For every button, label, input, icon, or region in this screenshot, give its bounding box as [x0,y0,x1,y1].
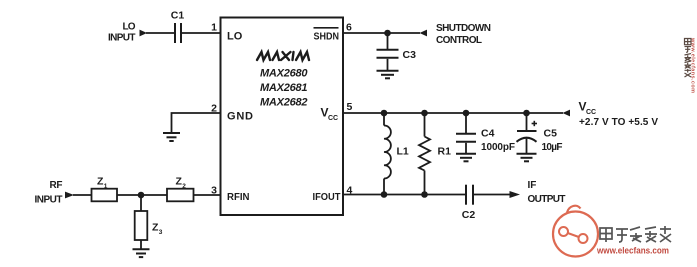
svg-text:1: 1 [211,22,217,34]
resistor R1 [424,113,426,137]
svg-text:www.elecfans.com: www.elecfans.com [690,37,696,93]
capacitor C3 [387,33,389,49]
wire Z2 to pin 3 [194,194,221,196]
watermark logo elecfans bottom right [553,206,598,257]
watermark vertical strip top right [685,39,692,78]
svg-text:IFOUT: IFOUT [313,191,342,203]
capacitor C4 [465,113,467,133]
resistor Z2 [167,189,194,202]
wire pin 5 Vcc rail [343,112,563,114]
svg-text:C1: C1 [171,10,185,22]
junction node C4 top [463,110,470,117]
IF output arrow [510,191,521,198]
C5 plus sign [532,123,537,125]
capacitor C2 [465,185,467,205]
resistor Z3 [135,211,148,240]
svg-text:MAX2682: MAX2682 [260,97,308,109]
wire Z3 to ground [140,240,142,249]
svg-text:LO: LO [123,22,136,33]
svg-text:6: 6 [346,22,352,34]
svg-text:CC: CC [586,109,596,116]
ground C4 [456,153,476,155]
svg-text:CONTROL: CONTROL [436,35,482,46]
svg-text:3: 3 [159,229,163,236]
wire node to Z3 [140,195,142,211]
capacitor C5 polarized [526,113,528,130]
junction node R1 top [421,110,428,117]
wire LO input to C1 [146,32,174,34]
LO input arrow [140,30,148,37]
junction node L1 top [381,110,388,117]
wire pin 6 SHDN to shutdown control [343,32,420,34]
svg-text:LO: LO [227,31,243,43]
wire C1 to pin 1 [182,32,221,34]
inductor L1 [383,113,385,126]
svg-text:C3: C3 [403,49,417,61]
svg-text:R1: R1 [438,146,452,158]
svg-text:2: 2 [211,103,217,115]
svg-text:C5: C5 [544,127,558,139]
svg-text:RFIN: RFIN [227,191,250,203]
svg-text:SHUTDOWN: SHUTDOWN [436,23,491,34]
wire Z1 to Z2 [117,194,167,196]
svg-text:L1: L1 [397,146,409,158]
junction node C3/pin6 [384,30,391,37]
IC U1 MAX2680/MAX2681/MAX2682 body [221,18,344,216]
RF input arrow [65,192,74,199]
ground GND pin [163,132,180,134]
svg-text:IF: IF [528,180,537,191]
svg-text:MAX2681: MAX2681 [260,82,308,94]
shutdown control arrow [420,30,428,37]
wire pin 4 IFOUT to C2 [343,194,465,196]
SHDN overline [314,27,339,29]
IC logo MAXIM [257,52,309,60]
ground C3 [377,70,399,72]
svg-text:SHDN: SHDN [314,31,340,43]
Vcc arrow [563,110,571,117]
svg-text:GND: GND [227,111,253,123]
capacitor C1 [174,23,176,43]
wire pin 2 GND to ground [172,113,221,132]
junction node C5 top [523,110,530,117]
ground C5 [517,153,537,155]
svg-text:OUTPUT: OUTPUT [528,194,566,205]
resistor Z1 [92,189,118,202]
svg-text:3: 3 [211,185,217,197]
wire C2 to IF output [474,194,510,196]
svg-text:INPUT: INPUT [108,33,136,44]
svg-text:2: 2 [182,183,186,190]
svg-text:www.elecfans.com: www.elecfans.com [596,246,669,256]
svg-text:INPUT: INPUT [35,195,63,206]
svg-text:C2: C2 [462,209,476,221]
ground Z3 [133,248,150,250]
svg-text:C4: C4 [481,127,495,139]
junction node Z1/Z3 [138,192,145,199]
svg-text:1000pF: 1000pF [481,142,515,153]
svg-text:+2.7 V TO +5.5 V: +2.7 V TO +5.5 V [579,117,658,128]
junction node L1 bottom [381,191,388,198]
svg-text:10µF: 10µF [542,142,563,153]
svg-text:RF: RF [50,180,63,191]
svg-text:CC: CC [328,115,338,122]
watermark text elecfans bottom right [600,226,671,242]
svg-text:MAX2680: MAX2680 [260,68,308,80]
svg-text:1: 1 [104,183,108,190]
svg-text:5: 5 [347,101,353,113]
svg-text:4: 4 [347,185,353,197]
wire RF input to Z1 [73,194,92,196]
junction node R1 bottom [421,191,428,198]
